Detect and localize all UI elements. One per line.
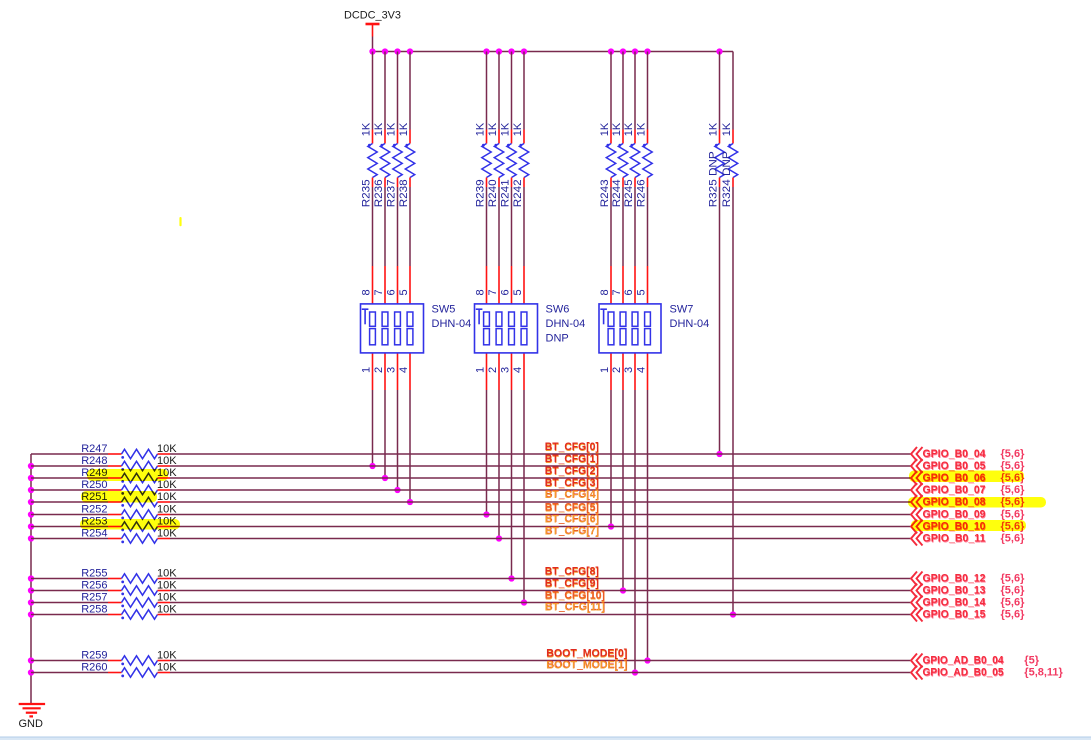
wire: R325 down to net row <box>719 187 721 454</box>
svg-text:1K: 1K <box>721 122 733 136</box>
junction: GND rail / R249 row <box>28 475 34 481</box>
resistor R325 (1K pull-up) <box>707 52 724 208</box>
svg-text:4: 4 <box>635 367 647 373</box>
svg-text:10K: 10K <box>157 504 177 516</box>
resistor R251 (10K) <box>81 491 177 507</box>
wire: SW7 pin 2 to net row <box>622 390 624 591</box>
SW6 pin 2 stub <box>498 353 500 390</box>
svg-text:1K: 1K <box>707 122 719 136</box>
off-page connector GPIO_B0_12 {5,6} <box>911 572 1025 586</box>
resistor R236 (1K pull-up) <box>373 52 390 208</box>
off-page connector GPIO_AD_B0_05 {5,8,11} <box>911 666 1064 680</box>
svg-text:4: 4 <box>398 367 410 373</box>
svg-text:5: 5 <box>512 289 524 295</box>
SW7 pin 8 stub <box>610 266 612 304</box>
junction: GND rail / R255 row <box>28 575 34 581</box>
wire: R242 to switch pin <box>523 187 525 266</box>
resistor R240 (1K pull-up) <box>487 52 504 208</box>
svg-text:R252: R252 <box>81 504 107 516</box>
power symbol DCDC_3V3 <box>344 10 401 52</box>
svg-text:GPIO_B0_12: GPIO_B0_12 <box>923 573 986 585</box>
svg-text:BOOT_MODE[0]: BOOT_MODE[0] <box>546 648 627 660</box>
resistor R254 (10K) <box>81 528 177 544</box>
wire: 3V3 power bus <box>373 51 734 53</box>
junction: 3V3 bus at x=623 <box>620 48 626 54</box>
wire: GND rail to R257 <box>31 602 108 604</box>
junction: R325 column / net row <box>716 451 722 457</box>
svg-text:GPIO_B0_09: GPIO_B0_09 <box>923 509 986 521</box>
highlight marker over R249 <box>87 469 168 481</box>
junction: SW5 pin 1 column / net row <box>369 463 375 469</box>
svg-text:DHN-04: DHN-04 <box>432 318 472 330</box>
svg-text:SW6: SW6 <box>546 304 570 316</box>
net label BT_CFG[5] <box>545 502 600 515</box>
junction: SW7 pin 1 column / net row <box>608 523 614 529</box>
svg-text:R235: R235 <box>360 179 372 207</box>
svg-text:GPIO_AD_B0_04: GPIO_AD_B0_04 <box>923 655 1005 667</box>
SW6 pin 7 stub <box>498 266 500 304</box>
junction: SW5 pin 3 column / net row <box>394 487 400 493</box>
wire: R256 to GPIO_B0_13 connector <box>170 590 911 592</box>
svg-text:BT_CFG[10]: BT_CFG[10] <box>545 590 605 602</box>
svg-text:R237: R237 <box>385 179 397 207</box>
SW7 pin 5 stub <box>647 266 649 304</box>
svg-text:{5}: {5} <box>1024 655 1039 667</box>
svg-text:4: 4 <box>512 367 524 373</box>
svg-text:BT_CFG[4]: BT_CFG[4] <box>545 489 599 501</box>
wire: GND rail to R251 <box>31 501 108 503</box>
svg-text:6: 6 <box>385 289 397 295</box>
wire: R246 to switch pin <box>647 187 649 266</box>
highlight stray mark <box>179 217 181 226</box>
junction: SW5 pin 4 column / net row <box>407 499 413 505</box>
resistor R245 (1K pull-up) <box>623 52 640 208</box>
off-page connector GPIO_B0_15 {5,6} <box>911 608 1025 622</box>
wire: SW7 pin 4 to net row <box>647 390 649 661</box>
svg-text:DCDC_3V3: DCDC_3V3 <box>344 10 401 22</box>
svg-text:3: 3 <box>499 367 511 373</box>
wire: GND rail to R260 <box>31 672 108 674</box>
svg-text:GPIO_B0_11: GPIO_B0_11 <box>923 533 986 545</box>
resistor R259 (10K) <box>81 650 177 666</box>
net label BOOT_MODE[0] <box>546 648 628 661</box>
resistor R255 (10K) <box>81 568 177 584</box>
svg-text:1: 1 <box>360 367 372 373</box>
wire: R249 to GPIO_B0_06 connector <box>170 477 911 479</box>
svg-text:1: 1 <box>474 367 486 373</box>
resistor R243 (1K pull-up) <box>599 52 616 208</box>
svg-text:1K: 1K <box>398 122 410 136</box>
svg-text:6: 6 <box>499 289 511 295</box>
svg-text:1K: 1K <box>623 122 635 136</box>
svg-text:R324 DNP: R324 DNP <box>721 151 733 207</box>
wire: SW5 pin 2 to net row <box>384 390 386 478</box>
svg-text:R257: R257 <box>81 592 107 604</box>
svg-text:GPIO_B0_07: GPIO_B0_07 <box>923 484 986 496</box>
wire: R251 to GPIO_B0_08 connector <box>170 501 911 503</box>
wire: R258 to GPIO_B0_15 connector <box>170 614 911 616</box>
svg-text:3: 3 <box>623 367 635 373</box>
svg-text:10K: 10K <box>157 455 177 467</box>
junction: GND rail / R257 row <box>28 599 34 605</box>
resistor R237 (1K pull-up) <box>385 52 402 208</box>
svg-text:1K: 1K <box>499 122 511 136</box>
svg-text:SW5: SW5 <box>432 304 456 316</box>
wire: GND rail to R248 <box>31 465 108 467</box>
wire: GND rail to R255 <box>31 578 108 580</box>
svg-text:7: 7 <box>487 289 499 295</box>
net label BOOT_MODE[1] <box>546 659 628 672</box>
junction: GND rail / R259 row <box>28 657 34 663</box>
svg-text:GPIO_B0_13: GPIO_B0_13 <box>923 585 986 597</box>
svg-text:{5,6}: {5,6} <box>1001 484 1026 496</box>
svg-text:GPIO_B0_15: GPIO_B0_15 <box>923 609 986 621</box>
svg-text:BT_CFG[0]: BT_CFG[0] <box>545 441 599 453</box>
wire: R243 to switch pin <box>610 187 612 266</box>
svg-text:BT_CFG[9]: BT_CFG[9] <box>545 578 599 590</box>
wire: GND rail to R249 <box>31 477 108 479</box>
svg-text:{5,6}: {5,6} <box>1001 597 1026 609</box>
resistor R258 (10K) <box>81 604 177 620</box>
svg-text:6: 6 <box>623 289 635 295</box>
svg-text:R245: R245 <box>623 179 635 207</box>
svg-text:DHN-04: DHN-04 <box>670 318 710 330</box>
SW6 pin 1 stub <box>486 353 488 390</box>
SW6 pin 3 stub <box>511 353 513 390</box>
svg-text:1K: 1K <box>599 122 611 136</box>
wire: GND rail to R247 <box>31 453 108 455</box>
wire: SW6 pin 3 to net row <box>511 390 513 579</box>
junction: GND rail / R256 row <box>28 587 34 593</box>
svg-text:R255: R255 <box>81 568 107 580</box>
junction: 3V3 bus at x=486.5 <box>483 48 489 54</box>
svg-text:{5,6}: {5,6} <box>1001 460 1026 472</box>
svg-text:GND: GND <box>19 718 44 730</box>
SW6 pin 5 stub <box>523 266 525 304</box>
svg-text:8: 8 <box>360 289 372 295</box>
svg-text:GPIO_B0_14: GPIO_B0_14 <box>923 597 987 609</box>
resistor R241 (1K pull-up) <box>499 52 516 208</box>
off-page connector GPIO_AD_B0_04 {5} <box>911 654 1040 668</box>
wire: R237 to switch pin <box>397 187 399 266</box>
DIP switch SW6 (DHN-04) <box>475 304 586 353</box>
svg-text:R246: R246 <box>635 179 647 207</box>
DIP switch SW7 (DHN-04) <box>599 304 709 353</box>
resistor R238 (1K pull-up) <box>398 52 415 208</box>
net label BT_CFG[9] <box>545 578 600 591</box>
off-page connector GPIO_B0_08 {5,6} <box>911 495 1025 509</box>
SW7 pin 2 stub <box>622 353 624 390</box>
off-page connector GPIO_B0_11 {5,6} <box>911 532 1025 546</box>
wire: R324 down to net row <box>732 187 734 615</box>
svg-text:R260: R260 <box>81 662 107 674</box>
highlight marker over GPIO_B0_08 <box>908 497 1046 508</box>
junction: GND rail / R258 row <box>28 611 34 617</box>
net label BT_CFG[7] <box>545 525 600 538</box>
net label BT_CFG[6] <box>545 513 600 526</box>
svg-text:10K: 10K <box>157 568 177 580</box>
svg-text:BT_CFG[3]: BT_CFG[3] <box>545 477 599 489</box>
off-page connector GPIO_B0_07 {5,6} <box>911 483 1025 497</box>
wire: GND rail to R259 <box>31 660 108 662</box>
junction: R324 column / net row <box>730 611 736 617</box>
off-page connector GPIO_B0_10 {5,6} <box>911 520 1025 534</box>
highlight marker over GPIO_B0_06 <box>909 471 1024 483</box>
svg-text:10K: 10K <box>157 662 177 674</box>
off-page connector GPIO_B0_09 {5,6} <box>911 508 1025 522</box>
svg-text:BT_CFG[6]: BT_CFG[6] <box>545 514 599 526</box>
svg-text:{5,6}: {5,6} <box>1001 533 1026 545</box>
junction: GND rail / R248 row <box>28 463 34 469</box>
SW5 pin 1 stub <box>372 353 374 390</box>
SW5 pin 2 stub <box>384 353 386 390</box>
svg-text:R258: R258 <box>81 604 107 616</box>
wire: R244 to switch pin <box>622 187 624 266</box>
svg-text:R240: R240 <box>487 179 499 207</box>
net label BT_CFG[1] <box>545 453 600 466</box>
junction: SW6 pin 3 column / net row <box>508 575 514 581</box>
highlight marker over R251 <box>81 491 157 503</box>
junction: SW7 pin 4 column / net row <box>644 657 650 663</box>
svg-text:R241: R241 <box>499 179 511 207</box>
svg-text:2: 2 <box>487 367 499 373</box>
SW6 pin 8 stub <box>486 266 488 304</box>
svg-text:1K: 1K <box>373 122 385 136</box>
svg-text:BOOT_MODE[1]: BOOT_MODE[1] <box>546 660 627 672</box>
junction: SW6 pin 2 column / net row <box>496 535 502 541</box>
svg-text:10K: 10K <box>157 592 177 604</box>
wire: R259 to GPIO_AD_B0_04 connector <box>170 660 911 662</box>
resistor R250 (10K) <box>81 479 177 495</box>
svg-text:2: 2 <box>611 367 623 373</box>
wire: R250 to GPIO_B0_07 connector <box>170 489 911 491</box>
svg-text:R325 DNP: R325 DNP <box>707 151 719 207</box>
junction: 3V3 bus at x=397.5 <box>394 48 400 54</box>
junction: 3V3 bus at x=647.5 <box>644 48 650 54</box>
svg-text:1: 1 <box>599 367 611 373</box>
svg-text:R238: R238 <box>398 179 410 207</box>
SW5 pin 5 stub <box>409 266 411 304</box>
junction: SW5 pin 2 column / net row <box>382 475 388 481</box>
resistor R239 (1K pull-up) <box>474 52 491 208</box>
svg-text:10K: 10K <box>157 491 177 503</box>
SW6 pin 4 stub <box>523 353 525 390</box>
svg-text:{5,8,11}: {5,8,11} <box>1024 667 1063 679</box>
svg-text:BT_CFG[5]: BT_CFG[5] <box>545 502 599 514</box>
junction: GND rail / R254 row <box>28 535 34 541</box>
svg-text:2: 2 <box>373 367 385 373</box>
junction: GND rail / R252 row <box>28 511 34 517</box>
svg-text:R259: R259 <box>81 650 107 662</box>
off-page connector GPIO_B0_06 {5,6} <box>911 471 1025 485</box>
SW5 pin 3 stub <box>397 353 399 390</box>
svg-text:10K: 10K <box>157 604 177 616</box>
SW5 pin 6 stub <box>397 266 399 304</box>
junction: 3V3 bus at x=635 <box>632 48 638 54</box>
svg-text:3: 3 <box>385 367 397 373</box>
svg-text:BT_CFG[7]: BT_CFG[7] <box>545 526 599 538</box>
junction: SW6 pin 1 column / net row <box>483 511 489 517</box>
junction: GND rail / R251 row <box>28 499 34 505</box>
svg-text:{5,6}: {5,6} <box>1001 573 1026 585</box>
SW5 pin 4 stub <box>409 353 411 390</box>
svg-text:BT_CFG[1]: BT_CFG[1] <box>545 453 599 465</box>
wire: R247 to GPIO_B0_04 connector <box>170 453 911 455</box>
SW6 pin 6 stub <box>511 266 513 304</box>
SW7 pin 1 stub <box>610 353 612 390</box>
SW7 pin 3 stub <box>634 353 636 390</box>
junction: 3V3 bus at x=410 <box>407 48 413 54</box>
junction: SW7 pin 2 column / net row <box>620 587 626 593</box>
svg-text:DHN-04: DHN-04 <box>546 318 586 330</box>
ground symbol GND <box>19 704 46 730</box>
wire: GND rail (left vertical) <box>30 454 32 704</box>
off-page connector GPIO_B0_13 {5,6} <box>911 584 1025 598</box>
wire: SW5 pin 3 to net row <box>397 390 399 490</box>
wire: SW7 pin 3 to net row <box>634 390 636 673</box>
junction: GND rail / R250 row <box>28 487 34 493</box>
resistor R249 (10K) <box>81 467 177 483</box>
wire: SW6 pin 4 to net row <box>523 390 525 603</box>
junction: 3V3 bus at x=719.5 <box>716 48 722 54</box>
svg-text:GPIO_AD_B0_05: GPIO_AD_B0_05 <box>923 667 1004 679</box>
junction: SW6 pin 4 column / net row <box>521 599 527 605</box>
resistor R324 (1K pull-up) <box>721 52 738 208</box>
svg-text:1K: 1K <box>611 122 623 136</box>
bottom page edge band <box>0 737 1091 740</box>
resistor R257 (10K) <box>81 592 177 608</box>
junction: 3V3 bus at x=499 <box>496 48 502 54</box>
SW5 pin 7 stub <box>384 266 386 304</box>
junction: 3V3 bus at x=524 <box>521 48 527 54</box>
svg-text:5: 5 <box>398 289 410 295</box>
svg-text:R242: R242 <box>512 179 524 207</box>
resistor R242 (1K pull-up) <box>512 52 529 208</box>
svg-text:1K: 1K <box>385 122 397 136</box>
svg-text:5: 5 <box>635 289 647 295</box>
resistor R256 (10K) <box>81 580 177 596</box>
wire: SW6 pin 1 to net row <box>486 390 488 515</box>
junction: GND rail / R253 row <box>28 523 34 529</box>
net label BT_CFG[11] <box>545 601 606 614</box>
wire: GND rail to R254 <box>31 538 108 540</box>
wire: GND rail to R253 <box>31 526 108 528</box>
wire: GND rail to R256 <box>31 590 108 592</box>
wire: SW7 pin 1 to net row <box>610 390 612 527</box>
wire: SW5 pin 1 to net row <box>372 390 374 466</box>
svg-text:R244: R244 <box>611 179 623 207</box>
wire: R257 to GPIO_B0_14 connector <box>170 602 911 604</box>
wire: R238 to switch pin <box>409 187 411 266</box>
off-page connector GPIO_B0_14 {5,6} <box>911 596 1025 610</box>
wire: R241 to switch pin <box>511 187 513 266</box>
wire: R248 to GPIO_B0_05 connector <box>170 465 911 467</box>
svg-text:1K: 1K <box>360 122 372 136</box>
svg-text:1K: 1K <box>635 122 647 136</box>
net label BT_CFG[0] <box>545 441 600 454</box>
svg-text:R243: R243 <box>599 179 611 207</box>
DIP switch SW5 (DHN-04) <box>361 304 472 353</box>
wire: SW6 pin 2 to net row <box>498 390 500 539</box>
SW5 pin 8 stub <box>372 266 374 304</box>
svg-text:R248: R248 <box>81 455 107 467</box>
resistor R248 (10K) <box>81 455 177 471</box>
wire: R254 to GPIO_B0_11 connector <box>170 538 911 540</box>
svg-text:8: 8 <box>599 289 611 295</box>
resistor R260 (10K) <box>81 662 177 678</box>
svg-text:{5,6}: {5,6} <box>1001 509 1026 521</box>
wire: R240 to switch pin <box>498 187 500 266</box>
svg-text:R236: R236 <box>373 179 385 207</box>
off-page connector GPIO_B0_05 {5,6} <box>911 459 1025 473</box>
highlight marker over R253 <box>80 519 180 530</box>
resistor R247 (10K) <box>81 443 177 459</box>
wire: R235 to switch pin <box>372 187 374 266</box>
svg-text:1K: 1K <box>487 122 499 136</box>
wire: R252 to GPIO_B0_09 connector <box>170 514 911 516</box>
svg-text:DNP: DNP <box>546 332 569 344</box>
svg-text:10K: 10K <box>157 443 177 455</box>
net label BT_CFG[2] <box>545 465 600 478</box>
svg-text:{5,6}: {5,6} <box>1001 609 1026 621</box>
junction: 3V3 bus at x=385 <box>382 48 388 54</box>
SW7 pin 7 stub <box>622 266 624 304</box>
junction: GND rail / R260 row <box>28 669 34 675</box>
wire: GND rail to R258 <box>31 614 108 616</box>
wire: R255 to GPIO_B0_12 connector <box>170 578 911 580</box>
svg-text:R256: R256 <box>81 580 107 592</box>
resistor R235 (1K pull-up) <box>360 52 377 208</box>
svg-text:8: 8 <box>474 289 486 295</box>
resistor R252 (10K) <box>81 504 177 520</box>
resistor R246 (1K pull-up) <box>635 52 652 208</box>
SW7 pin 4 stub <box>647 353 649 390</box>
wire: GND rail to R250 <box>31 489 108 491</box>
svg-text:1K: 1K <box>474 122 486 136</box>
junction: 3V3 bus at x=511.5 <box>508 48 514 54</box>
wire: R260 to GPIO_AD_B0_05 connector <box>170 672 911 674</box>
svg-text:{5,6}: {5,6} <box>1001 585 1026 597</box>
junction: 3V3 bus at x=611 <box>608 48 614 54</box>
wire: SW5 pin 4 to net row <box>409 390 411 502</box>
resistor R244 (1K pull-up) <box>611 52 628 208</box>
resistor R253 (10K) <box>81 516 177 532</box>
svg-text:1K: 1K <box>512 122 524 136</box>
off-page connector GPIO_B0_04 {5,6} <box>911 447 1025 461</box>
wire: R239 to switch pin <box>486 187 488 266</box>
svg-text:R239: R239 <box>474 179 486 207</box>
wire: R236 to switch pin <box>384 187 386 266</box>
svg-text:10K: 10K <box>157 580 177 592</box>
svg-text:7: 7 <box>373 289 385 295</box>
wire: R245 to switch pin <box>634 187 636 266</box>
svg-text:7: 7 <box>611 289 623 295</box>
SW7 pin 6 stub <box>634 266 636 304</box>
svg-text:SW7: SW7 <box>670 304 694 316</box>
svg-text:GPIO_B0_05: GPIO_B0_05 <box>923 460 986 472</box>
wire: GND rail to R252 <box>31 514 108 516</box>
net label BT_CFG[8] <box>545 566 600 579</box>
highlight marker over GPIO_B0_10 <box>911 520 1026 531</box>
svg-text:BT_CFG[11]: BT_CFG[11] <box>545 602 605 614</box>
svg-text:BT_CFG[2]: BT_CFG[2] <box>545 465 599 477</box>
junction: 3V3 bus at x=372.5 <box>369 48 375 54</box>
net label BT_CFG[3] <box>545 477 600 490</box>
svg-text:{5,6}: {5,6} <box>1001 448 1026 460</box>
svg-text:R247: R247 <box>81 443 107 455</box>
svg-text:BT_CFG[8]: BT_CFG[8] <box>545 566 599 578</box>
svg-text:GPIO_B0_04: GPIO_B0_04 <box>923 448 987 460</box>
